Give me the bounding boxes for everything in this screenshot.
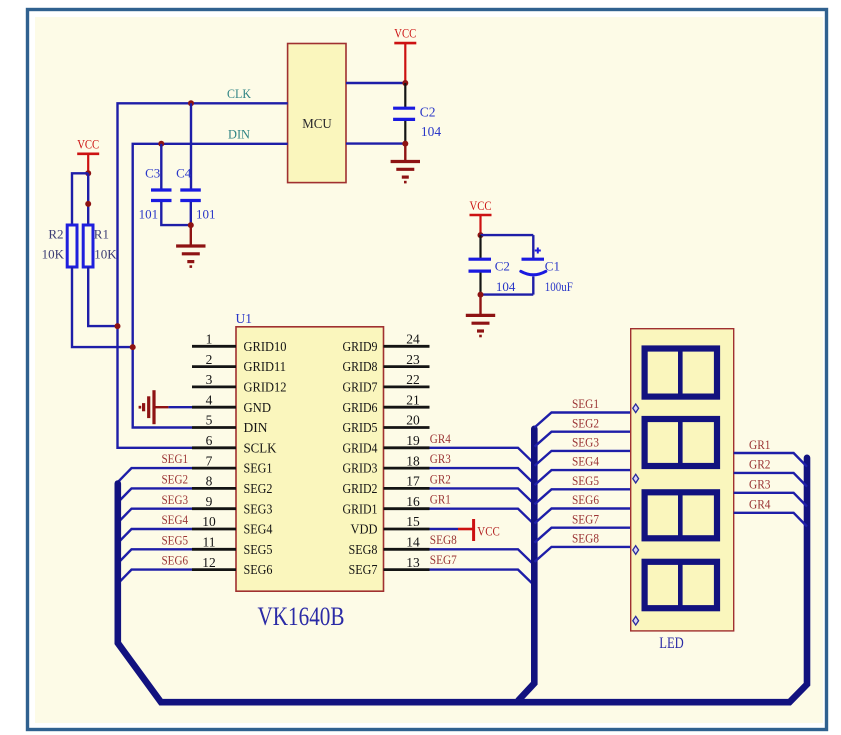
led pin diamond 1: [633, 404, 639, 413]
svg-text:19: 19: [406, 433, 420, 448]
wire R1 bottom to CLK line: [88, 267, 117, 326]
svg-text:13: 13: [406, 555, 420, 570]
svg-text:SEG8: SEG8: [572, 531, 599, 546]
pin 6 (SCLK): [192, 446, 236, 449]
svg-text:SEG4: SEG4: [572, 454, 599, 469]
svg-text:16: 16: [406, 494, 420, 509]
junction CLK/C4: [188, 100, 194, 106]
svg-text:12: 12: [202, 555, 216, 570]
svg-text:23: 23: [406, 352, 420, 367]
ground (pin4, rotated): [152, 390, 155, 424]
junction VCC mid node: [478, 232, 484, 238]
svg-text:SEG2: SEG2: [572, 415, 599, 430]
power VCC (MCU): [394, 42, 416, 45]
led digit 1: [645, 349, 717, 397]
svg-text:SEG5: SEG5: [162, 532, 189, 547]
pin 7 (SEG1): [192, 467, 236, 470]
power VCC (left): [77, 153, 99, 156]
svg-text:GRID8: GRID8: [343, 359, 378, 374]
svg-text:SEG4: SEG4: [162, 512, 189, 527]
svg-text:SEG6: SEG6: [572, 492, 599, 507]
wire GR2 (pin) to mid bus: [430, 488, 535, 504]
pin 2 (GRID11): [192, 365, 236, 368]
mcu U-MCU box: [288, 44, 346, 183]
svg-text:C2: C2: [420, 105, 436, 120]
junction C2/gnd node: [402, 141, 408, 147]
svg-text:SEG2: SEG2: [162, 472, 189, 487]
wire SEG7 pin to mid bus: [430, 570, 535, 586]
ground (mid): [466, 314, 495, 317]
capacitor C2 (mid): [469, 258, 492, 261]
svg-text:C1: C1: [545, 258, 560, 273]
capacitor C2 (at MCU): [393, 107, 415, 110]
wire SEG4 to left bus: [118, 529, 192, 543]
pin 11 (SEG5): [192, 548, 236, 551]
svg-text:2: 2: [206, 352, 213, 367]
wire SEG8 pin to mid bus: [430, 549, 535, 565]
led pin diamond 3: [633, 546, 639, 555]
svg-text:VK1640B: VK1640B: [258, 602, 345, 631]
svg-text:18: 18: [406, 453, 420, 468]
wire SEG8 bus to LED: [535, 547, 631, 562]
ground (C3C4): [176, 244, 205, 247]
ground (MCU): [391, 160, 420, 163]
svg-text:SEG2: SEG2: [244, 481, 273, 496]
ic U1 box: [236, 327, 384, 591]
junction C3C4/gnd: [188, 222, 194, 228]
svg-text:GRID11: GRID11: [244, 359, 287, 374]
wire SEG1 to left bus: [118, 468, 192, 482]
svg-text:24: 24: [406, 332, 420, 347]
wire gnd stem (C3C4): [190, 225, 192, 246]
pin 24 (GRID9): [384, 345, 430, 348]
junction R1/CLK: [115, 323, 121, 329]
capacitor C4: [180, 188, 201, 191]
svg-text:GR4: GR4: [430, 431, 451, 446]
svg-text:SEG7: SEG7: [572, 511, 599, 526]
svg-text:17: 17: [406, 474, 420, 489]
wire VCC to R1 top: [87, 173, 89, 225]
svg-text:SEG1: SEG1: [162, 451, 189, 466]
wire VCC node to C2: [404, 83, 406, 107]
svg-text:8: 8: [206, 474, 213, 489]
svg-text:LED: LED: [659, 635, 684, 652]
bus (left-bottom-right): [118, 458, 807, 702]
wire SEG3 to left bus: [118, 509, 192, 523]
led digit 2: [645, 419, 717, 466]
svg-text:GRID12: GRID12: [244, 380, 287, 395]
power VCC (VDD): [458, 528, 473, 531]
pin 4 (GND): [192, 406, 236, 409]
svg-text:11: 11: [203, 535, 216, 550]
svg-text:MCU: MCU: [302, 117, 332, 132]
wire C3 bottom to gnd node: [161, 202, 191, 225]
svg-text:GRID2: GRID2: [343, 481, 378, 496]
svg-text:15: 15: [406, 514, 420, 529]
junction DIN/C3: [158, 141, 164, 147]
svg-text:20: 20: [406, 413, 420, 428]
svg-text:SEG8: SEG8: [430, 532, 457, 547]
svg-text:100uF: 100uF: [545, 279, 573, 294]
wire R2 bottom to DIN line: [72, 267, 133, 347]
svg-text:6: 6: [206, 433, 213, 448]
wire GR4 LED to right bus: [734, 513, 807, 527]
wire MCU pin2 to gnd node: [346, 142, 405, 144]
svg-text:101: 101: [196, 206, 216, 221]
svg-text:SEG6: SEG6: [162, 553, 189, 568]
wire GND pin stub: [168, 406, 192, 408]
pin 18 (GRID3): [384, 467, 430, 470]
svg-text:GRID7: GRID7: [343, 380, 378, 395]
wire SEG6 bus to LED: [535, 509, 631, 524]
svg-text:DIN: DIN: [244, 420, 268, 435]
svg-text:10: 10: [202, 514, 216, 529]
wire C2b top: [479, 235, 481, 258]
svg-text:GR2: GR2: [430, 471, 451, 486]
svg-text:GR4: GR4: [749, 497, 771, 512]
wire SEG4 bus to LED: [535, 470, 631, 485]
wire CLK (MCU to SCLK): [118, 103, 288, 448]
svg-text:3: 3: [206, 372, 213, 387]
svg-text:VCC: VCC: [394, 27, 416, 41]
pin 21 (GRID6): [384, 406, 430, 409]
svg-text:9: 9: [206, 494, 213, 509]
junction VCC/R split: [85, 170, 91, 176]
junction VCC/C2 node: [402, 80, 408, 86]
wire SEG2 to left bus: [118, 488, 192, 502]
svg-text:GRID4: GRID4: [343, 440, 378, 455]
pin 16 (GRID1): [384, 507, 430, 510]
wire GR3 (pin) to mid bus: [430, 468, 535, 484]
pin 14 (SEG8): [384, 548, 430, 551]
junction on R1 branch: [85, 201, 91, 207]
svg-text:21: 21: [406, 392, 420, 407]
svg-text:SEG7: SEG7: [349, 562, 378, 577]
svg-text:7: 7: [206, 453, 213, 468]
svg-text:SEG8: SEG8: [349, 542, 378, 557]
svg-text:22: 22: [406, 372, 420, 387]
wire DIN (MCU to DIN): [133, 144, 288, 428]
wire SEG3 bus to LED: [535, 451, 631, 466]
wire C3 top: [160, 144, 162, 189]
wire C1 top: [532, 235, 534, 258]
svg-text:GR1: GR1: [749, 437, 771, 452]
capacitor C1 plus sign: [535, 250, 541, 252]
wire VDD to VCC: [430, 528, 459, 530]
wire GR1 LED to right bus: [734, 453, 807, 467]
svg-text:VCC: VCC: [470, 199, 492, 213]
svg-text:VCC: VCC: [77, 137, 99, 151]
svg-text:SEG3: SEG3: [162, 492, 189, 507]
wire SEG6 to left bus: [118, 570, 192, 584]
svg-text:C3: C3: [145, 165, 160, 180]
svg-text:GR2: GR2: [749, 457, 771, 472]
svg-text:GND: GND: [244, 400, 272, 415]
svg-text:SEG4: SEG4: [244, 522, 273, 537]
wire C1 bottom: [532, 277, 534, 295]
svg-text:SCLK: SCLK: [244, 440, 277, 455]
wire GR1 (pin) to mid bus: [430, 509, 535, 525]
wire SEG5 to left bus: [118, 549, 192, 563]
resistor R1: [83, 225, 93, 267]
svg-text:104: 104: [496, 279, 516, 294]
svg-text:GRID10: GRID10: [244, 339, 287, 354]
wire gnd stem (mid): [479, 295, 481, 316]
wire VCC node to C1 branch: [481, 234, 534, 236]
pin 23 (GRID8): [384, 365, 430, 368]
led digit 3: [645, 492, 717, 538]
wire C4 top: [190, 103, 192, 189]
pin 19 (GRID4): [384, 446, 430, 449]
svg-text:10K: 10K: [42, 247, 65, 262]
pin 13 (SEG7): [384, 568, 430, 571]
wire SEG1 bus to LED: [535, 413, 631, 428]
pin 5 (DIN): [192, 426, 236, 429]
svg-text:SEG5: SEG5: [244, 542, 273, 557]
svg-text:1: 1: [206, 332, 213, 347]
svg-text:R2: R2: [48, 226, 63, 241]
svg-text:101: 101: [139, 206, 159, 221]
svg-text:10K: 10K: [94, 247, 117, 262]
wire VCC to R2 top: [72, 173, 88, 225]
wire MCU pin to VCC node: [346, 82, 405, 84]
svg-text:VDD: VDD: [351, 522, 378, 537]
svg-text:4: 4: [206, 392, 213, 407]
pin 3 (GRID12): [192, 385, 236, 388]
svg-text:GR3: GR3: [430, 451, 451, 466]
wire SEG5 bus to LED: [535, 489, 631, 504]
pin 8 (SEG2): [192, 487, 236, 490]
svg-text:GR3: GR3: [749, 477, 771, 492]
svg-text:SEG1: SEG1: [572, 396, 599, 411]
led pin diamond 2: [633, 474, 639, 483]
svg-text:DIN: DIN: [228, 127, 251, 142]
svg-text:GRID6: GRID6: [343, 400, 378, 415]
svg-text:SEG7: SEG7: [430, 552, 457, 567]
svg-text:GR1: GR1: [430, 492, 451, 507]
power VCC (mid): [470, 214, 492, 217]
led display box: [631, 329, 734, 631]
bus (middle): [519, 429, 535, 701]
svg-text:5: 5: [206, 413, 213, 428]
svg-text:GRID3: GRID3: [343, 461, 378, 476]
wire C2b bottom: [479, 273, 481, 295]
svg-text:CLK: CLK: [227, 86, 252, 101]
wire gnd stem (MCU): [404, 144, 406, 162]
wire GR4 (pin) to mid bus: [430, 448, 535, 464]
led digit 4: [645, 562, 717, 608]
capacitor C3: [151, 188, 172, 191]
pin 1 (GRID10): [192, 345, 236, 348]
wire SEG2 bus to LED: [535, 432, 631, 447]
wire SEG7 bus to LED: [535, 528, 631, 543]
pin 20 (GRID5): [384, 426, 430, 429]
svg-text:SEG5: SEG5: [572, 473, 599, 488]
wire GR2 LED to right bus: [734, 473, 807, 487]
led pin diamond 4: [633, 616, 639, 625]
svg-text:GRID1: GRID1: [343, 501, 378, 516]
svg-text:VCC: VCC: [477, 525, 500, 539]
pin 15 (VDD): [384, 528, 430, 531]
wire C1 to gnd node: [481, 293, 534, 295]
svg-text:SEG3: SEG3: [572, 435, 599, 450]
resistor R2: [67, 225, 77, 267]
junction R2/DIN: [130, 344, 136, 350]
svg-text:U1: U1: [236, 311, 253, 326]
pin 9 (SEG3): [192, 507, 236, 510]
svg-text:SEG3: SEG3: [244, 501, 273, 516]
svg-text:C4: C4: [176, 165, 192, 180]
svg-text:14: 14: [406, 535, 420, 550]
svg-text:R1: R1: [94, 226, 109, 241]
svg-text:SEG6: SEG6: [244, 562, 273, 577]
svg-text:GRID9: GRID9: [343, 339, 378, 354]
svg-text:GRID5: GRID5: [343, 420, 378, 435]
capacitor C1 plates: [522, 258, 545, 261]
pin 22 (GRID7): [384, 385, 430, 388]
pin 12 (SEG6): [192, 568, 236, 571]
svg-text:SEG1: SEG1: [244, 461, 273, 476]
svg-text:104: 104: [421, 124, 442, 139]
pin 17 (GRID2): [384, 487, 430, 490]
wire GR3 LED to right bus: [734, 493, 807, 507]
pin 10 (SEG4): [192, 528, 236, 531]
svg-text:C2: C2: [495, 258, 510, 273]
wire C4 bottom to gnd node: [190, 202, 192, 225]
junction C2b/gnd: [478, 292, 484, 298]
wire C2 to gnd node: [404, 121, 406, 144]
